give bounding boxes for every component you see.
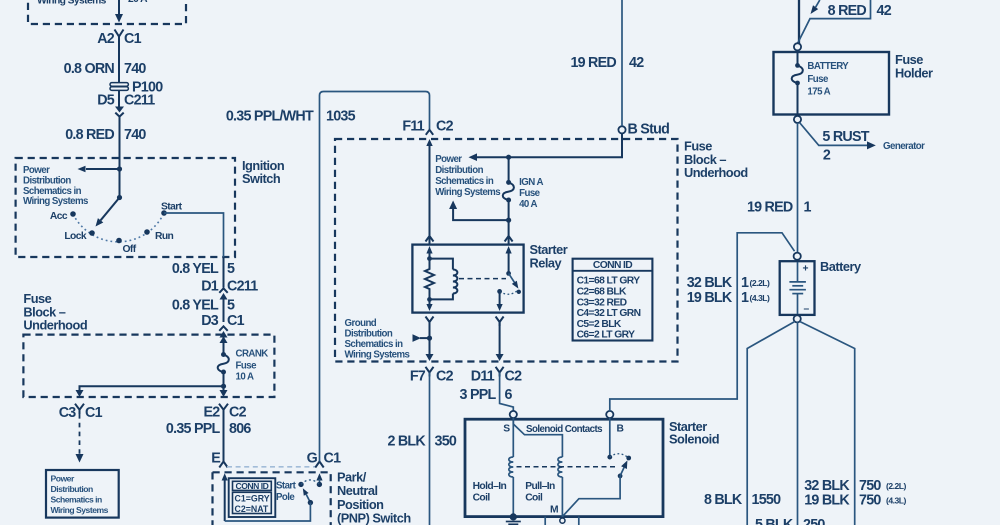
svg-text:740: 740 bbox=[124, 61, 146, 77]
label 0.8 YEL 5 (upper) bbox=[172, 261, 235, 277]
label 0.35 PPL 806 bbox=[166, 421, 252, 437]
reference text: Power Distribution Schematics in Wiring Systems bbox=[23, 165, 88, 207]
terminal G flare bbox=[315, 462, 323, 468]
svg-text:Power: Power bbox=[23, 165, 50, 176]
relay switch common contact bbox=[506, 271, 511, 276]
node D11 / C2 labels bbox=[471, 369, 522, 385]
svg-text:Distribution: Distribution bbox=[345, 329, 393, 340]
wire 19 RED 1 to battery bbox=[797, 123, 799, 253]
svg-text:19 RED: 19 RED bbox=[747, 200, 793, 216]
fuse block underhood label (right) bbox=[684, 139, 748, 181]
svg-text:1: 1 bbox=[804, 200, 812, 216]
connector C2 (F11) Y symbol bbox=[426, 130, 433, 135]
wire into connector C211 bbox=[118, 91, 120, 108]
wire pull-in coil to M bbox=[561, 477, 563, 517]
svg-text:Lock: Lock bbox=[64, 231, 87, 242]
starter relay label bbox=[530, 242, 568, 270]
reference text: Ground Distribution Schematics in Wiring Systems bbox=[345, 318, 410, 361]
ground reference arrow bbox=[413, 334, 430, 342]
wire from reference box with down arrow bbox=[115, 0, 123, 23]
node D1 / C211 labels bbox=[201, 279, 258, 295]
svg-text:(2.2L): (2.2L) bbox=[750, 278, 771, 288]
svg-text:Distribution: Distribution bbox=[51, 484, 93, 494]
wiper pivot junction bbox=[117, 195, 122, 200]
svg-text:B: B bbox=[617, 424, 624, 435]
svg-text:350: 350 bbox=[435, 434, 457, 450]
svg-text:Solenoid: Solenoid bbox=[669, 432, 719, 447]
relay coil exit pin arrow (bottom left) bbox=[426, 299, 432, 311]
svg-text:250: 250 bbox=[803, 517, 825, 525]
svg-text:Hold–In: Hold–In bbox=[473, 481, 507, 492]
svg-text:0.35 PPL: 0.35 PPL bbox=[166, 421, 221, 437]
svg-text:0.35 PPL/WHT: 0.35 PPL/WHT bbox=[226, 109, 314, 125]
junction on B Stud line bbox=[506, 155, 511, 160]
pull-in coil label bbox=[525, 481, 555, 504]
junction on ignition feed bbox=[117, 166, 122, 171]
dashed wire down to reference box bbox=[76, 414, 84, 463]
wire down to wiper pivot bbox=[119, 169, 121, 198]
wire battery negative center 5 BLK 250 bbox=[797, 322, 799, 525]
fuse block underhood dashed box (left) bbox=[23, 335, 274, 397]
svg-text:Wiring Systems: Wiring Systems bbox=[37, 0, 107, 7]
wire B Stud to power distribution arrow bbox=[469, 133, 623, 161]
svg-text:750: 750 bbox=[859, 493, 881, 509]
svg-text:Power: Power bbox=[435, 154, 462, 165]
svg-text:C211: C211 bbox=[227, 279, 258, 295]
svg-text:Off: Off bbox=[123, 244, 137, 255]
solenoid B contact bbox=[607, 455, 612, 460]
svg-text:CONN ID: CONN ID bbox=[236, 481, 269, 491]
label 0.8 ORN 740 bbox=[64, 61, 147, 77]
CONN ID table bbox=[573, 259, 653, 341]
svg-text:1: 1 bbox=[741, 275, 749, 291]
starter solenoid label bbox=[669, 419, 719, 447]
wire from Start contact to right bbox=[164, 213, 224, 257]
pull-in coil bbox=[558, 457, 563, 477]
svg-text:E: E bbox=[211, 451, 220, 467]
battery positive terminal bbox=[794, 253, 801, 260]
svg-text:Fuse: Fuse bbox=[236, 361, 258, 372]
svg-text:32 BLK: 32 BLK bbox=[687, 275, 733, 291]
dotted arc start pole bbox=[301, 480, 319, 484]
svg-text:C1: C1 bbox=[227, 313, 245, 329]
connector C1 (C3) Y symbol bbox=[75, 404, 84, 414]
fuse CRANK labels bbox=[236, 349, 269, 383]
svg-text:C2=NAT: C2=NAT bbox=[235, 504, 269, 514]
svg-text:2 BLK: 2 BLK bbox=[387, 434, 426, 450]
label 0.8 YEL 5 (lower) bbox=[172, 298, 235, 314]
svg-text:M: M bbox=[550, 505, 558, 516]
svg-text:C3=32 RED: C3=32 RED bbox=[577, 297, 627, 308]
svg-text:Switch: Switch bbox=[242, 171, 281, 186]
svg-text:B Stud: B Stud bbox=[628, 122, 670, 138]
svg-text:Holder: Holder bbox=[895, 65, 933, 80]
fuse block underhood dashed box (middle) bbox=[335, 139, 678, 362]
junction below CRANK fuse bbox=[221, 384, 226, 389]
svg-text:19 BLK: 19 BLK bbox=[804, 493, 850, 509]
svg-text:F7: F7 bbox=[410, 369, 426, 385]
svg-text:8 RED: 8 RED bbox=[828, 3, 867, 19]
label 19 BLK 1 (4.3L) bbox=[687, 290, 770, 306]
svg-text:D11: D11 bbox=[471, 369, 495, 385]
pin arrow out of fuse block bottom (C3) bbox=[76, 390, 84, 397]
svg-text:S: S bbox=[503, 424, 510, 435]
solenoid mechanical dashed link bbox=[517, 466, 619, 468]
connector C2 (D11) Y symbol bbox=[496, 367, 504, 377]
fuse IGN A labels bbox=[519, 177, 543, 210]
relay armature with arrow bbox=[509, 273, 519, 288]
svg-text:D1: D1 bbox=[201, 279, 219, 295]
contact Off bbox=[116, 238, 137, 255]
wire to power distribution (left arrow) bbox=[78, 166, 120, 173]
wire battery negative right branch 32/19 BLK 750 bbox=[800, 322, 855, 525]
terminal M bbox=[550, 505, 565, 524]
connector C211 (D1) flare and up arrow bbox=[219, 288, 227, 322]
wire battery negative left branch 8 BLK 1550 bbox=[747, 322, 795, 525]
svg-text:BATTERY: BATTERY bbox=[807, 61, 849, 72]
svg-text:Schematics in: Schematics in bbox=[345, 339, 404, 350]
fuse BATTERY labels bbox=[807, 61, 849, 97]
svg-text:6: 6 bbox=[505, 387, 513, 403]
fuse holder label bbox=[895, 52, 933, 80]
junction below IGN A fuse bbox=[506, 218, 511, 223]
PNP CONN ID table bbox=[229, 478, 276, 517]
label 3 PPL 6 bbox=[460, 387, 513, 403]
contact Run bbox=[144, 229, 173, 242]
light dashed link E to G bbox=[227, 466, 316, 468]
svg-text:Pole: Pole bbox=[276, 492, 295, 503]
label 19 BLK 750 (4.3L) bbox=[804, 493, 906, 509]
svg-text:5: 5 bbox=[227, 261, 235, 277]
svg-text:Schematics in: Schematics in bbox=[51, 495, 103, 505]
svg-text:(4.3L): (4.3L) bbox=[750, 293, 771, 303]
solenoid fixed contact bbox=[626, 456, 631, 461]
node F11 / C2 labels bbox=[402, 119, 453, 135]
Start Pole label bbox=[276, 481, 297, 504]
svg-text:Generator: Generator bbox=[883, 141, 925, 152]
label 2 BLK 350 bbox=[387, 434, 456, 450]
PNP switch dashed box bbox=[213, 472, 331, 525]
svg-text:Underhood: Underhood bbox=[684, 165, 748, 180]
svg-text:C2: C2 bbox=[436, 369, 454, 385]
svg-text:Fuse: Fuse bbox=[519, 188, 541, 199]
branch 8 RED 42 callout bbox=[798, 0, 871, 43]
starter relay box bbox=[412, 245, 523, 313]
label 32 BLK 1 (2.2L) bbox=[687, 275, 770, 291]
dotted arc solenoid contact bbox=[610, 454, 629, 458]
wire from armature to E leg bbox=[225, 503, 311, 521]
svg-text:40 A: 40 A bbox=[519, 199, 537, 210]
terminal S bbox=[503, 411, 517, 435]
relay resistor bbox=[425, 259, 434, 300]
svg-text:19 RED: 19 RED bbox=[570, 55, 616, 71]
node F7 / C2 labels bbox=[410, 369, 454, 385]
svg-text:8 BLK: 8 BLK bbox=[704, 492, 743, 508]
svg-text:C2=68 BLK: C2=68 BLK bbox=[577, 287, 627, 298]
B Stud terminal bbox=[618, 122, 669, 138]
pin arrow into PNP box (E) bbox=[222, 473, 228, 521]
svg-text:–: – bbox=[804, 304, 810, 315]
wire 0.8 YEL 5 (upper) bbox=[223, 257, 225, 288]
label 19 RED 1 bbox=[747, 200, 812, 216]
svg-text:C2: C2 bbox=[505, 369, 523, 385]
svg-text:C1: C1 bbox=[324, 451, 342, 467]
label 8 BLK 1550 bbox=[704, 492, 781, 508]
svg-text:1550: 1550 bbox=[752, 492, 782, 508]
pin arrow out of fuse block (F7) bbox=[426, 354, 434, 361]
svg-text:0.8 RED: 0.8 RED bbox=[65, 127, 114, 143]
svg-text:Start: Start bbox=[276, 481, 297, 492]
svg-text:Pull–In: Pull–In bbox=[525, 481, 555, 492]
svg-text:Schematics in: Schematics in bbox=[23, 186, 82, 197]
svg-text:740: 740 bbox=[124, 127, 146, 143]
svg-text:+: + bbox=[803, 264, 809, 275]
svg-text:Wiring Systems: Wiring Systems bbox=[23, 196, 88, 207]
label 0.8 RED 740 bbox=[65, 127, 146, 143]
relay coil bbox=[430, 259, 458, 300]
svg-text:C1=68 LT GRY: C1=68 LT GRY bbox=[577, 276, 641, 287]
pin arrow into fuse block top bbox=[220, 336, 228, 343]
node D3 / C1 labels bbox=[201, 313, 244, 329]
svg-text:Fuse: Fuse bbox=[807, 74, 829, 85]
relay fixed contact bbox=[517, 290, 521, 294]
svg-text:Underhood: Underhood bbox=[23, 317, 87, 332]
connector C1 (A2) Y symbol bbox=[115, 30, 124, 37]
ignition rotary dashed arc bbox=[73, 213, 164, 242]
svg-text:175 A: 175 A bbox=[807, 86, 830, 97]
svg-text:C6=2 LT GRY: C6=2 LT GRY bbox=[577, 330, 636, 341]
starter motor leads below solenoid bbox=[545, 517, 579, 525]
contact Start bbox=[161, 202, 183, 216]
ground junction dot bbox=[510, 513, 517, 520]
svg-text:0.8 ORN: 0.8 ORN bbox=[64, 61, 115, 77]
svg-text:IGN A: IGN A bbox=[519, 177, 543, 188]
starter solenoid box bbox=[465, 419, 663, 516]
connector C2 (F7) Y symbol bbox=[426, 367, 434, 377]
wire 0.8 RED 740 bbox=[119, 117, 121, 169]
connector C1 (D3) flare and up arrow bbox=[219, 326, 227, 354]
connector C2 (E2) Y symbol bbox=[219, 404, 228, 414]
wire hold-in coil to ground bbox=[512, 477, 514, 517]
pin arrow into PNP box (G) bbox=[316, 473, 322, 484]
PNP start pole contact bbox=[298, 482, 303, 487]
label 5 BLK 250 (cut off) bbox=[755, 517, 825, 525]
battery negative terminal bbox=[794, 315, 801, 322]
svg-text:10 A: 10 A bbox=[236, 372, 254, 383]
connector flare above relay (right pin) bbox=[505, 236, 513, 242]
fuse holder box bbox=[774, 52, 890, 115]
dotted arc relay contact bbox=[500, 291, 518, 295]
svg-text:5: 5 bbox=[227, 298, 235, 314]
label 19 RED 42 bbox=[570, 55, 644, 71]
svg-text:CRANK: CRANK bbox=[236, 349, 269, 360]
wire relay right pin down to D11 bbox=[499, 322, 501, 355]
ignition switch dashed box bbox=[16, 158, 235, 257]
svg-text:C1: C1 bbox=[85, 405, 103, 421]
wire B into contact bbox=[609, 418, 611, 457]
contact Acc bbox=[50, 211, 76, 222]
connector C211 (D5) arrow and flare bbox=[115, 107, 124, 117]
label 0.35 PPL/WHT 1035 bbox=[226, 109, 356, 125]
hold-in coil wire bbox=[512, 418, 514, 457]
reference box (cut off at top): Power Distribution Schematics in Wiring Systems bbox=[28, 0, 186, 24]
svg-text:Schematics in: Schematics in bbox=[435, 176, 494, 187]
svg-text:5 BLK: 5 BLK bbox=[755, 517, 794, 525]
relay output contact bbox=[497, 289, 502, 294]
svg-text:Distribution: Distribution bbox=[435, 165, 483, 176]
wire 0.8 ORN 740 bbox=[118, 37, 120, 84]
svg-text:Battery: Battery bbox=[820, 259, 862, 274]
battery box bbox=[780, 261, 815, 315]
ignition switch wiper arm bbox=[96, 198, 120, 227]
svg-text:G: G bbox=[307, 451, 318, 467]
svg-text:42: 42 bbox=[629, 55, 644, 71]
svg-text:F11: F11 bbox=[402, 119, 424, 135]
node A2 / C1 labels bbox=[97, 31, 141, 47]
svg-text:1: 1 bbox=[741, 290, 749, 306]
contact Lock bbox=[64, 230, 94, 242]
svg-text:E2: E2 bbox=[204, 405, 221, 421]
svg-text:Wiring Systems: Wiring Systems bbox=[51, 505, 109, 515]
connector Y below relay (right) bbox=[496, 317, 504, 327]
svg-text:3 PPL: 3 PPL bbox=[460, 387, 497, 403]
svg-text:C2: C2 bbox=[436, 119, 454, 135]
svg-text:0.8 YEL: 0.8 YEL bbox=[172, 261, 219, 277]
reference text: Power Distribution Schematics in Wiring Systems bbox=[435, 154, 500, 198]
generator branch 5 RUST 2 bbox=[800, 123, 926, 164]
svg-text:A2: A2 bbox=[97, 31, 115, 47]
wire 0.35 PPL 806 bbox=[223, 410, 225, 461]
ground symbol bbox=[506, 522, 521, 525]
svg-text:19 BLK: 19 BLK bbox=[687, 290, 733, 306]
relay coil bottom junction bbox=[427, 297, 432, 302]
svg-text:D3: D3 bbox=[201, 313, 219, 329]
battery cell symbol bbox=[789, 262, 806, 314]
wire 19 RED 42 from top bbox=[621, 0, 623, 126]
svg-text:Wiring Systems: Wiring Systems bbox=[435, 187, 500, 198]
node C3 / C1 labels bbox=[59, 405, 103, 421]
junction on F7 wire bbox=[427, 336, 432, 341]
solenoid armature with arrow bbox=[618, 460, 628, 478]
svg-text:CONN ID: CONN ID bbox=[593, 260, 632, 271]
svg-text:(4.3L): (4.3L) bbox=[886, 496, 907, 506]
relay mechanical dashed link bbox=[459, 278, 506, 280]
svg-text:Start: Start bbox=[161, 202, 183, 213]
pin arrow out of fuse block (D11) bbox=[496, 354, 504, 361]
fuse holder bottom terminal bbox=[794, 116, 801, 123]
svg-text:C2: C2 bbox=[229, 405, 247, 421]
node G / C1 labels bbox=[307, 451, 341, 467]
svg-text:42: 42 bbox=[877, 3, 892, 19]
svg-text:Power: Power bbox=[51, 474, 75, 484]
svg-text:Acc: Acc bbox=[50, 211, 68, 222]
svg-text:Ground: Ground bbox=[345, 318, 377, 329]
reference box: Power Distribution Schematics in Wiring Systems bbox=[46, 470, 119, 518]
connector flare above relay (left pin) bbox=[426, 236, 434, 242]
wire 8 RED 42 from top bbox=[798, 0, 800, 44]
relay output pin arrow (bottom right) bbox=[497, 291, 503, 311]
svg-text:Run: Run bbox=[155, 231, 174, 242]
svg-text:Distribution: Distribution bbox=[23, 175, 71, 186]
fuse holder top terminal bbox=[794, 43, 801, 50]
hold-in coil bbox=[509, 457, 514, 477]
svg-text:C1: C1 bbox=[124, 31, 142, 47]
terminal B bbox=[606, 411, 623, 435]
svg-text:(PNP) Switch: (PNP) Switch bbox=[337, 511, 411, 525]
branch with up arrow to reference text bbox=[449, 201, 509, 221]
fuse BATTERY 175A bbox=[792, 50, 803, 115]
svg-text:20 A: 20 A bbox=[128, 0, 148, 5]
svg-text:C5=2 BLK: C5=2 BLK bbox=[577, 319, 622, 330]
node E2 / C2 labels bbox=[204, 405, 247, 421]
svg-text:Wiring Systems: Wiring Systems bbox=[345, 350, 410, 361]
grommet P100 bbox=[110, 80, 163, 96]
svg-text:(2.2L): (2.2L) bbox=[886, 481, 907, 491]
wire armature to M bbox=[562, 476, 620, 517]
relay coil pin arrow (top left) bbox=[426, 246, 432, 259]
svg-text:C1=GRY: C1=GRY bbox=[235, 493, 270, 503]
relay coil top junction bbox=[427, 256, 432, 261]
label 8 RED 42 bbox=[828, 3, 892, 19]
svg-text:D5: D5 bbox=[97, 93, 115, 109]
svg-text:C3: C3 bbox=[59, 405, 77, 421]
svg-text:Relay: Relay bbox=[530, 255, 563, 270]
node D5 / C211 labels bbox=[97, 93, 155, 109]
wire 3 PPL 6 to solenoid S bbox=[500, 373, 514, 412]
svg-text:C211: C211 bbox=[124, 93, 155, 109]
battery ground branch 32/19 BLK riser bbox=[610, 233, 795, 411]
label 32 BLK 750 (2.2L) bbox=[804, 478, 906, 494]
relay switch pin arrow (top right) bbox=[506, 246, 512, 273]
ignition switch label bbox=[242, 158, 285, 186]
wire 2 BLK 350 down to ground bbox=[429, 373, 431, 525]
svg-text:2: 2 bbox=[823, 148, 831, 164]
svg-text:1035: 1035 bbox=[326, 109, 356, 125]
svg-text:0.8 YEL: 0.8 YEL bbox=[172, 298, 219, 314]
wire IGN A fuse down to relay bbox=[508, 220, 510, 244]
PNP armature with arrow bbox=[303, 488, 313, 505]
PNP G contact bbox=[317, 482, 322, 487]
hold-in coil label bbox=[473, 481, 507, 504]
fuse CRANK 10A bbox=[218, 352, 229, 386]
wire 0.35 PPL/WHT 1035 riser G to F11 bbox=[320, 92, 430, 462]
connector Y below relay (left) bbox=[426, 317, 434, 327]
fuse block underhood label (left) bbox=[23, 291, 87, 332]
wire F11 into fuse block bbox=[429, 145, 431, 245]
svg-text:5 RUST: 5 RUST bbox=[822, 129, 869, 145]
fuse IGN A 40A bbox=[503, 157, 514, 220]
svg-text:C4=32 LT GRN: C4=32 LT GRN bbox=[577, 308, 641, 319]
svg-text:Solenoid Contacts: Solenoid Contacts bbox=[526, 424, 603, 435]
terminal E flare bbox=[219, 462, 227, 468]
svg-text:Coil: Coil bbox=[525, 493, 543, 504]
wire S into solenoid splits bbox=[513, 418, 562, 457]
svg-text:Coil: Coil bbox=[473, 493, 491, 504]
wire relay left pin down to F7 bbox=[429, 322, 431, 355]
wire out of fuse block bottom (E2) bbox=[220, 386, 228, 397]
branch wire to C3 bbox=[80, 386, 224, 390]
PNP switch label bbox=[337, 470, 411, 525]
svg-text:806: 806 bbox=[229, 421, 251, 437]
